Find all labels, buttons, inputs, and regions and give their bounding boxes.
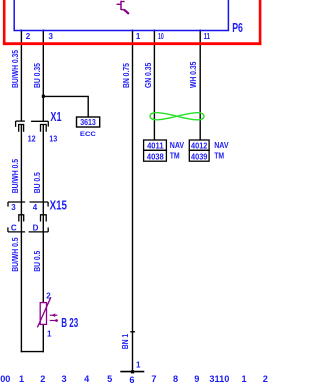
svg-text:GN 0.35: GN 0.35 (143, 63, 153, 88)
svg-text:4038: 4038 (147, 152, 165, 161)
wire pin10 GN down to box 4011 (153, 30, 155, 141)
svg-text:12: 12 (28, 134, 36, 143)
dest box 4011 (144, 140, 167, 150)
svg-text:4011: 4011 (147, 141, 164, 150)
svg-text:4: 4 (84, 374, 90, 384)
svg-text:BU 0.5: BU 0.5 (32, 251, 42, 272)
svg-text:1: 1 (136, 32, 141, 41)
dest box 4039 (189, 150, 209, 161)
svg-text:BN 0.75: BN 0.75 (121, 63, 131, 88)
component box 3613 (77, 117, 100, 127)
svg-text:13: 13 (49, 134, 57, 143)
wire X1-13 to X15-D to B23 pin2 (42, 125, 44, 304)
svg-text:1: 1 (19, 374, 24, 384)
ground bar (120, 371, 144, 373)
wire X1-12 to X15-C to bottom corner (20, 125, 22, 353)
svg-text:BU/WH 0.5: BU/WH 0.5 (10, 237, 20, 271)
ground junction dot (131, 370, 134, 373)
splice tick on BN wire (130, 331, 135, 333)
svg-text:BU 0.5: BU 0.5 (32, 172, 42, 193)
connector X1 pin13 symbol (31, 121, 48, 131)
wire B23 pin1 down (42, 324, 44, 352)
svg-text:2: 2 (40, 374, 45, 384)
svg-text:WH 0.35: WH 0.35 (189, 62, 199, 88)
svg-text:BU/WH 0.5: BU/WH 0.5 (10, 159, 20, 193)
dest box 4012 (189, 140, 209, 150)
switch contact inside P6 (purple, clipped at top) (117, 1, 129, 14)
svg-text:1: 1 (136, 360, 141, 369)
wire pin2 P6 to X1 (20, 30, 22, 122)
connector X15 pin4/D symbol (29, 202, 49, 232)
svg-text:P6: P6 (232, 21, 243, 35)
connector X15 pin3/C symbol (8, 202, 25, 232)
svg-text:TM: TM (214, 151, 224, 161)
svg-text:BU/WH 0.35: BU/WH 0.35 (10, 50, 20, 88)
svg-text:4012: 4012 (191, 141, 207, 150)
svg-text:7: 7 (151, 374, 156, 384)
svg-text:D: D (33, 223, 39, 232)
wire pin3 P6 to X1 (42, 30, 44, 122)
svg-text:ECC: ECC (80, 130, 96, 138)
svg-text:B 23: B 23 (61, 316, 78, 330)
wire branch to 3613 ECC (43, 96, 88, 117)
svg-text:4039: 4039 (191, 152, 207, 161)
svg-text:2: 2 (263, 374, 268, 384)
svg-text:8: 8 (173, 374, 178, 384)
svg-text:NAV: NAV (170, 140, 184, 150)
svg-text:BU 0.35: BU 0.35 (32, 63, 42, 88)
svg-text:3613: 3613 (80, 117, 96, 127)
svg-text:2: 2 (46, 291, 51, 300)
svg-text:NAV: NAV (214, 140, 228, 150)
svg-text:3: 3 (61, 374, 66, 384)
svg-text:TM: TM (170, 151, 180, 161)
svg-text:X15: X15 (50, 199, 68, 213)
wire bottom U horizontal (21, 351, 44, 353)
junction dot branch (42, 95, 45, 98)
svg-text:5: 5 (107, 374, 112, 384)
red highlight frame (3, 0, 262, 45)
svg-text:3: 3 (11, 203, 16, 212)
svg-text:3110: 3110 (209, 374, 229, 384)
svg-text:11: 11 (204, 33, 210, 41)
svg-text:1: 1 (47, 330, 52, 339)
svg-text:3: 3 (49, 32, 54, 41)
svg-text:00: 00 (0, 374, 10, 384)
svg-text:6: 6 (129, 375, 134, 385)
twisted pair symbol (green) (150, 113, 204, 120)
wire pin11 WH down to box 4012 (199, 30, 201, 141)
connector X1 pin12 symbol (16, 121, 25, 132)
wire pin1 P6 BN down to ground (132, 30, 134, 372)
svg-text:4: 4 (33, 203, 38, 212)
svg-text:2: 2 (26, 32, 31, 41)
sensor B23 (photoresistor) (37, 297, 58, 327)
svg-text:1: 1 (241, 374, 246, 384)
svg-text:C: C (11, 223, 17, 232)
svg-text:BN 1: BN 1 (121, 334, 131, 349)
svg-text:10: 10 (158, 33, 164, 41)
svg-text:X1: X1 (50, 111, 61, 125)
connector P6 (blue box) (14, 0, 228, 31)
dest box 4038 (144, 150, 167, 161)
svg-text:9: 9 (194, 374, 199, 384)
